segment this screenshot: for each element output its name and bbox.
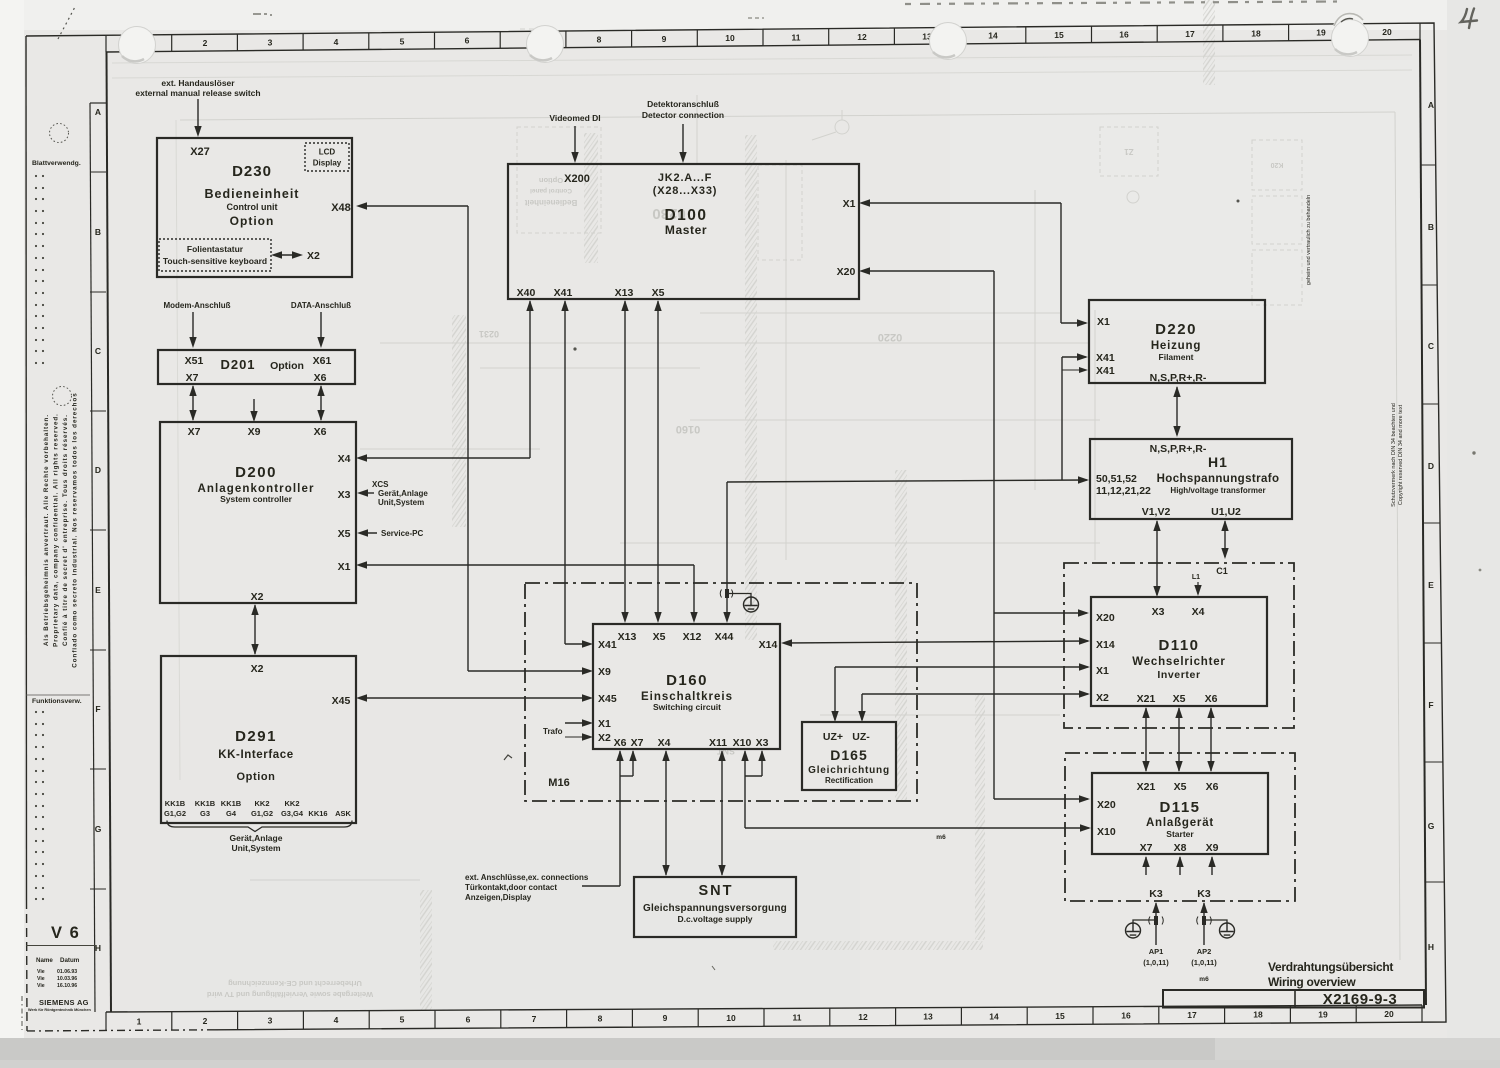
svg-text:System controller: System controller [220, 494, 292, 504]
svg-text:H1: H1 [1208, 454, 1228, 470]
wire V1,V2 to D110 X3 [1156, 521, 1158, 595]
svg-text:16: 16 [1119, 30, 1129, 40]
wire videomed to X200 [574, 126, 576, 160]
block D230 Bedieneinheit [157, 138, 352, 277]
wire net X13 [624, 301, 626, 618]
svg-text:8: 8 [598, 1014, 603, 1024]
wire data to D201 [320, 312, 322, 345]
top edge faint dashes [905, 2, 1340, 5]
svg-text:A: A [1428, 100, 1434, 110]
svg-text:ASK: ASK [335, 809, 351, 818]
svg-text:Control unit: Control unit [227, 202, 278, 212]
svg-text:50,51,52: 50,51,52 [1096, 473, 1137, 485]
svg-text:X11: X11 [709, 737, 727, 749]
LCD Display sub-box [305, 143, 349, 171]
svg-text:K20: K20 [1270, 161, 1283, 168]
svg-text:20: 20 [1382, 27, 1392, 37]
svg-text:Als Betriebsgeheimnis anvertra: Als Betriebsgeheimnis anvertraut. Alle R… [43, 414, 50, 646]
left letter strip [90, 103, 95, 1012]
svg-text:Gleichspannungsversorgung: Gleichspannungsversorgung [643, 903, 787, 914]
svg-text:U1,U2: U1,U2 [1211, 506, 1241, 518]
svg-text:Option: Option [270, 360, 304, 372]
wire net X1(D200)/X12 [359, 564, 694, 566]
wire net X1 D100 to D220 [862, 202, 1061, 204]
svg-text:Weitergabe sowie Vervielfältig: Weitergabe sowie Vervielfältigung und TV… [207, 990, 374, 999]
svg-text:X48: X48 [331, 202, 351, 214]
svg-text:Bedieneinheit: Bedieneinheit [205, 187, 300, 201]
svg-text:Türkontakt,door contact: Türkontakt,door contact [465, 883, 557, 892]
svg-text:Datum: Datum [60, 957, 80, 964]
svg-text:Wechselrichter: Wechselrichter [1132, 656, 1225, 668]
brace under D291 [167, 821, 352, 832]
svg-text:7: 7 [532, 1014, 537, 1024]
ghost boxes [517, 127, 601, 233]
svg-text:F: F [1428, 700, 1433, 710]
svg-text:10.03.96: 10.03.96 [57, 976, 77, 982]
svg-text:Unit,System: Unit,System [378, 498, 424, 507]
svg-text:Funktionsverw.: Funktionsverw. [32, 698, 82, 705]
svg-text:X6: X6 [314, 372, 327, 384]
svg-text:4: 4 [334, 37, 339, 47]
svg-text:KK1B: KK1B [221, 799, 242, 808]
svg-text:X1: X1 [598, 718, 611, 730]
svg-text:X6: X6 [614, 737, 627, 749]
svg-text:Inverter: Inverter [1157, 669, 1200, 681]
svg-text:external manual release switch: external manual release switch [135, 88, 260, 98]
svg-text:12: 12 [858, 1012, 868, 1022]
svg-text:Name: Name [36, 957, 53, 964]
bottom ruler band top line [106, 1005, 1422, 1012]
svg-text:12: 12 [857, 32, 867, 42]
svg-text:13: 13 [923, 1012, 933, 1022]
svg-text:X5: X5 [1174, 781, 1187, 793]
wire net X41 [564, 301, 566, 644]
block D200 Anlagenkontroller [160, 422, 356, 603]
svg-text:ext. Anschlüsse,ex. connection: ext. Anschlüsse,ex. connections [465, 873, 589, 882]
svg-text:X7: X7 [188, 426, 201, 438]
title block [1163, 990, 1424, 1008]
svg-text:X6: X6 [1205, 693, 1218, 705]
svg-text:X61: X61 [313, 355, 332, 367]
svg-text:19: 19 [1318, 1009, 1328, 1019]
wire X7 stub [632, 751, 634, 776]
svg-text:D: D [95, 465, 101, 475]
svg-text:5: 5 [400, 1015, 405, 1025]
svg-text:X41: X41 [598, 639, 617, 651]
svg-text:D110: D110 [1158, 637, 1199, 654]
svg-text:Confiado como secreto industri: Confiado como secreto industrial. Nos re… [72, 392, 79, 667]
svg-text:KK2: KK2 [254, 799, 269, 808]
svg-text:B: B [1428, 222, 1434, 232]
svg-text:D160: D160 [666, 672, 708, 689]
svg-text:Z1: Z1 [1124, 147, 1134, 156]
svg-text:14: 14 [989, 1011, 999, 1021]
svg-text:X1: X1 [843, 198, 856, 210]
svg-text:X1: X1 [338, 561, 351, 573]
svg-text:Wiring overview: Wiring overview [1268, 975, 1356, 989]
svg-text:G: G [1428, 821, 1435, 831]
wire X14 D160-D110 [784, 641, 1088, 643]
svg-text:C: C [1428, 341, 1434, 351]
wire stub X3 [360, 492, 374, 494]
svg-text:X1: X1 [1097, 316, 1110, 328]
svg-text:Hochspannungstrafo: Hochspannungstrafo [1157, 473, 1280, 485]
svg-text:X3: X3 [1152, 606, 1165, 618]
svg-text:G: G [95, 824, 102, 834]
svg-text:Trafo: Trafo [543, 727, 563, 736]
svg-text:15: 15 [1054, 30, 1064, 40]
svg-text:11,12,21,22: 11,12,21,22 [1096, 485, 1151, 497]
wire net X48/X9 [359, 205, 468, 207]
svg-text:X200: X200 [564, 173, 590, 185]
svg-text:Rectification: Rectification [825, 776, 873, 785]
svg-text:X2: X2 [251, 591, 264, 603]
wire L1 to X4 [1197, 582, 1199, 594]
svg-text:Control panel: Control panel [530, 187, 572, 194]
svg-text:G1,G2: G1,G2 [164, 809, 186, 818]
svg-text:KK16: KK16 [308, 809, 327, 818]
svg-text:Display: Display [313, 159, 342, 168]
svg-text:L1: L1 [1192, 574, 1200, 581]
svg-text:D100: D100 [664, 207, 707, 224]
svg-text:Verdrahtungsübersicht: Verdrahtungsübersicht [1268, 960, 1393, 974]
svg-text:X21: X21 [1137, 781, 1156, 793]
block SNT voltage supply [634, 877, 796, 937]
inner frame left [107, 52, 112, 1012]
svg-text:KK-Interface: KK-Interface [218, 749, 294, 761]
svg-text:3: 3 [268, 38, 273, 48]
svg-text:Option: Option [236, 771, 275, 783]
svg-text:X4: X4 [338, 453, 351, 465]
svg-text:X6: X6 [1206, 781, 1219, 793]
svg-text:Confié à titre de secret d' en: Confié à titre de secret d' entreprise. … [62, 414, 69, 646]
svg-text:Service-PC: Service-PC [381, 529, 423, 538]
svg-text:F: F [95, 704, 100, 714]
svg-text:X5: X5 [653, 631, 666, 643]
svg-text:ext. Handauslöser: ext. Handauslöser [161, 78, 235, 88]
svg-text:V1,V2: V1,V2 [1142, 506, 1171, 518]
svg-text:20: 20 [1384, 1009, 1394, 1019]
svg-text:M16: M16 [548, 777, 569, 789]
svg-text:SNT: SNT [699, 883, 734, 899]
svg-text:X9: X9 [598, 666, 611, 678]
svg-text:KK1B: KK1B [165, 799, 186, 808]
svg-text:Option: Option [230, 214, 275, 228]
svg-text:Unit,System: Unit,System [231, 843, 281, 853]
dash-dot boundary around D115 [1065, 753, 1295, 901]
svg-text:Blattverwendg.: Blattverwendg. [32, 160, 81, 167]
svg-text:G4: G4 [226, 809, 237, 818]
svg-text:X2: X2 [251, 663, 264, 675]
wire AP2 to K3 [1203, 903, 1205, 945]
wire into X27 [197, 99, 199, 134]
svg-text:D220: D220 [1155, 321, 1197, 338]
svg-text:X4: X4 [1192, 606, 1205, 618]
svg-text:G1,G2: G1,G2 [251, 809, 273, 818]
svg-text:X7: X7 [1140, 842, 1153, 854]
wire detector to JK2 [682, 124, 684, 160]
svg-text:KK2: KK2 [284, 799, 299, 808]
block D220 Heizung [1089, 300, 1265, 384]
svg-text:(1,0,11): (1,0,11) [1143, 958, 1169, 967]
svg-text:X9: X9 [248, 426, 261, 438]
svg-text:D.c.voltage supply: D.c.voltage supply [677, 914, 752, 924]
svg-text:Modem-Anschluß: Modem-Anschluß [163, 301, 230, 310]
wire net X44 to H1 and D220 X41 [726, 482, 728, 620]
svg-text:SIEMENS AG: SIEMENS AG [39, 998, 89, 1007]
svg-text:X3: X3 [756, 737, 769, 749]
ground AP2 [1204, 920, 1227, 923]
svg-text:KK1B: KK1B [195, 799, 216, 808]
svg-text:X45: X45 [598, 693, 617, 705]
dash-dot boundary M16 [525, 583, 917, 801]
connector marks on X44 wire [720, 590, 733, 598]
svg-text:X20: X20 [1097, 799, 1116, 811]
svg-text:K3: K3 [1197, 888, 1211, 900]
svg-text:X13: X13 [615, 287, 634, 299]
svg-text:X14: X14 [759, 639, 778, 651]
svg-text:XCS: XCS [372, 480, 389, 489]
svg-text:X2169-9-3: X2169-9-3 [1323, 991, 1398, 1008]
svg-text:X40: X40 [517, 287, 536, 299]
svg-text:X2: X2 [1096, 692, 1109, 704]
svg-text:X12: X12 [683, 631, 702, 643]
svg-text:9: 9 [663, 1013, 668, 1023]
svg-text:17: 17 [1185, 29, 1195, 39]
svg-text:JK2.A...F: JK2.A...F [658, 172, 712, 184]
wire X9 into D200 [253, 399, 255, 420]
name/date table [26, 945, 96, 947]
svg-text:D: D [1428, 461, 1434, 471]
handwritten 4 top right [1461, 9, 1477, 29]
svg-text:X45: X45 [332, 695, 351, 707]
svg-text:Anlaßgerät: Anlaßgerät [1146, 817, 1214, 829]
ghost wires [700, 312, 1060, 314]
svg-text:11: 11 [793, 1012, 802, 1022]
svg-text:X51: X51 [185, 355, 204, 367]
svg-text:(X28...X33): (X28...X33) [653, 185, 717, 197]
svg-text:X5: X5 [338, 528, 351, 540]
wire U1,U2 to C1 [1224, 521, 1226, 557]
svg-text:Videomed DI: Videomed DI [549, 113, 600, 123]
svg-text:Master: Master [665, 223, 707, 237]
svg-text:X10: X10 [733, 737, 752, 749]
svg-text:Werk für Röntgentechnik Münche: Werk für Röntgentechnik München [28, 1008, 91, 1012]
svg-text:X8: X8 [1174, 842, 1187, 854]
wire D220 to H1 [1176, 387, 1178, 435]
svg-text:Bedieneinheit: Bedieneinheit [524, 198, 577, 207]
svg-text:1: 1 [137, 1016, 142, 1026]
svg-text:D165: D165 [830, 747, 867, 763]
wires D110 to D115 [1145, 708, 1147, 771]
svg-text:X2: X2 [307, 250, 320, 262]
ghost rotated margin text right [1306, 195, 1404, 507]
svg-text:16: 16 [1121, 1011, 1131, 1021]
svg-text:Filament: Filament [1159, 352, 1194, 362]
block D165 Gleichrichtung [802, 722, 896, 790]
small dark specks [573, 347, 576, 350]
wire X11 to SNT [721, 751, 723, 875]
wire UZ- to D110 X2 [861, 694, 863, 720]
svg-text:X10: X10 [1097, 826, 1116, 838]
svg-text:X5: X5 [1173, 693, 1186, 705]
svg-text:Vie: Vie [37, 983, 45, 989]
svg-text:High/voltage transformer: High/voltage transformer [1170, 486, 1265, 495]
svg-text:V 6: V 6 [51, 924, 80, 942]
svg-text:X1: X1 [1096, 665, 1109, 677]
svg-text:X20: X20 [837, 266, 856, 278]
svg-text:X2: X2 [598, 732, 611, 744]
svg-text:geheim und vertraulich zu beha: geheim und vertraulich zu behandeln [1306, 195, 1312, 285]
svg-text:X41: X41 [554, 287, 573, 299]
wire trafo X2 [565, 736, 590, 738]
svg-text:D200: D200 [235, 464, 277, 481]
svg-text:Vie: Vie [37, 976, 45, 982]
svg-text:Heizung: Heizung [1151, 340, 1201, 352]
svg-text:X7: X7 [631, 737, 644, 749]
svg-text:X7: X7 [186, 372, 199, 384]
svg-text:X5: X5 [652, 287, 665, 299]
svg-text:G3,G4: G3,G4 [281, 809, 304, 818]
svg-text:B: B [95, 227, 101, 237]
block D115 Anlassgeraet [1092, 773, 1268, 854]
wire X45 D291-D160 [359, 697, 590, 699]
svg-text:m6: m6 [1199, 976, 1209, 983]
svg-text:Option: Option [539, 176, 564, 185]
svg-text:C: C [95, 346, 101, 356]
top ruler band bottom line [106, 40, 1420, 53]
svg-text:E: E [95, 585, 101, 595]
svg-text:D115: D115 [1159, 799, 1200, 816]
svg-text:Anzeigen,Display: Anzeigen,Display [465, 893, 532, 902]
block D100 Master [508, 164, 859, 299]
svg-text:Gerät,Anlage: Gerät,Anlage [230, 833, 283, 843]
svg-text:N,S,P,R+,R-: N,S,P,R+,R- [1150, 443, 1207, 455]
svg-text:N,S,P,R+,R-: N,S,P,R+,R- [1150, 372, 1207, 384]
svg-text:Gleichrichtung: Gleichrichtung [808, 765, 890, 776]
wire net X5 [657, 301, 659, 618]
svg-text:16.10.96: 16.10.96 [57, 983, 77, 989]
svg-text:X9: X9 [1206, 842, 1219, 854]
svg-text:Gerät,Anlage: Gerät,Anlage [378, 489, 428, 498]
svg-text:0220: 0220 [878, 331, 902, 343]
block D201 Option [158, 350, 355, 384]
block D110 Wechselrichter [1091, 597, 1267, 706]
svg-text:0231: 0231 [479, 329, 499, 339]
wire X6 net to ext connections [619, 751, 621, 886]
block D160 Einschaltkreis [593, 624, 780, 749]
svg-text:Proprietary data, company conf: Proprietary data, company confidential. … [53, 413, 60, 647]
svg-text:Folientastatur: Folientastatur [187, 244, 244, 254]
svg-text:X13: X13 [618, 631, 637, 643]
svg-text:18: 18 [1251, 28, 1261, 38]
ghost mirrored texts [524, 176, 577, 207]
svg-text:Touch-sensitive keyboard: Touch-sensitive keyboard [163, 256, 267, 266]
wire UZ+ to D110 X1 [834, 667, 836, 720]
svg-text:X4: X4 [658, 737, 671, 749]
svg-text:C1: C1 [1216, 566, 1228, 576]
svg-text:X20: X20 [1096, 612, 1115, 624]
svg-text:LCD: LCD [319, 148, 336, 157]
svg-text:E: E [1428, 580, 1434, 590]
svg-text:Switching circuit: Switching circuit [653, 702, 721, 712]
stub wires X7 X8 X9 [1145, 857, 1147, 875]
crease top-left [58, 5, 76, 39]
svg-text:K3: K3 [1149, 888, 1163, 900]
svg-text:0160: 0160 [676, 423, 700, 435]
svg-text:6: 6 [466, 1014, 471, 1024]
svg-text:4: 4 [334, 1015, 339, 1025]
cut marks bottom left [21, 996, 23, 1030]
svg-text:01.06.93: 01.06.93 [57, 969, 77, 975]
svg-text:14: 14 [988, 31, 998, 41]
ground at X44 [729, 594, 751, 598]
svg-text:X3: X3 [338, 489, 351, 501]
svg-text:H: H [1428, 942, 1434, 952]
svg-text:X27: X27 [190, 146, 210, 158]
svg-text:Copyright reserved DIN 34 and: Copyright reserved DIN 34 and more text [1398, 404, 1404, 505]
svg-text:A: A [95, 107, 101, 117]
svg-text:Starter: Starter [1166, 829, 1194, 839]
dash-dot boundary around D110 [1064, 563, 1294, 728]
svg-text:UZ+: UZ+ [823, 731, 843, 743]
wire net X40/X4 [529, 301, 531, 458]
svg-text:9: 9 [662, 34, 667, 44]
wire AP1 to K3 [1155, 903, 1157, 945]
svg-text:3: 3 [268, 1016, 273, 1026]
svg-text:X21: X21 [1137, 693, 1156, 705]
wire net X20 D100 to D110/D115 [862, 270, 994, 272]
wire X2 of D230 [274, 254, 300, 256]
svg-text:5: 5 [400, 36, 405, 46]
ground AP1 [1133, 920, 1156, 923]
svg-text:Urheberrecht und CE-Kennzeichn: Urheberrecht und CE-Kennzeichnung [228, 979, 362, 988]
svg-text:X44: X44 [715, 631, 734, 643]
svg-text:D230: D230 [232, 163, 272, 180]
svg-text:UZ-: UZ- [852, 731, 870, 743]
block D291 KK-Interface [161, 656, 356, 823]
svg-text:X14: X14 [1096, 639, 1115, 651]
svg-text:11: 11 [792, 33, 801, 43]
wire X2 D200-D291 [254, 605, 256, 654]
svg-text:Detektoranschluß: Detektoranschluß [647, 99, 719, 109]
svg-text:Detector connection: Detector connection [642, 110, 724, 120]
svg-text:10: 10 [725, 33, 735, 43]
svg-text:H: H [95, 943, 101, 953]
wire X10 net to D115 [744, 751, 746, 828]
svg-text:m6: m6 [936, 834, 946, 841]
wire trafo X1 [565, 722, 590, 724]
svg-text:18: 18 [1253, 1010, 1263, 1020]
wire X4 to SNT [665, 751, 667, 875]
wire modem to D201 [192, 312, 194, 345]
block H1 Hochspannungstrafo [1090, 439, 1292, 519]
inner frame right [1420, 40, 1426, 1006]
svg-text:2: 2 [203, 38, 208, 48]
svg-text:AP2: AP2 [1197, 947, 1212, 956]
svg-text:6: 6 [465, 36, 470, 46]
svg-text:D291: D291 [235, 728, 277, 745]
svg-text:8: 8 [597, 34, 602, 44]
wire X6-X6 D201/D200 [320, 386, 322, 420]
svg-text:Schutzvermerk nach DIN 34 beac: Schutzvermerk nach DIN 34 beachten und [1391, 403, 1397, 507]
svg-text:17: 17 [1187, 1010, 1197, 1020]
svg-text:X41: X41 [1096, 365, 1115, 377]
svg-text:10: 10 [726, 1013, 736, 1023]
svg-text:DATA-Anschluß: DATA-Anschluß [291, 301, 351, 310]
svg-text:(1,0,11): (1,0,11) [1191, 958, 1217, 967]
svg-text:X6: X6 [314, 426, 327, 438]
